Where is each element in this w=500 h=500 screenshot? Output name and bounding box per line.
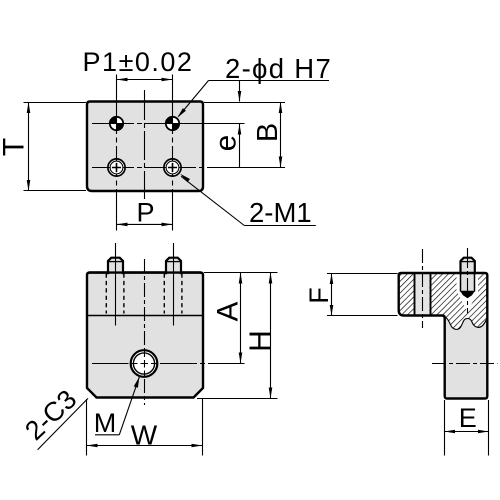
svg-text:2-M1: 2-M1 (249, 197, 312, 228)
svg-text:P1±0.02: P1±0.02 (83, 47, 194, 77)
svg-text:E: E (459, 403, 477, 433)
svg-text:2-ϕd H7: 2-ϕd H7 (225, 53, 332, 84)
svg-text:B: B (252, 123, 284, 142)
svg-text:M: M (94, 408, 117, 438)
svg-text:W: W (131, 420, 158, 451)
svg-text:H: H (244, 330, 277, 352)
svg-text:e: e (210, 135, 243, 151)
svg-text:P: P (136, 198, 154, 228)
svg-text:A: A (212, 301, 245, 321)
svg-text:T: T (0, 138, 31, 156)
svg-text:F: F (304, 287, 334, 304)
